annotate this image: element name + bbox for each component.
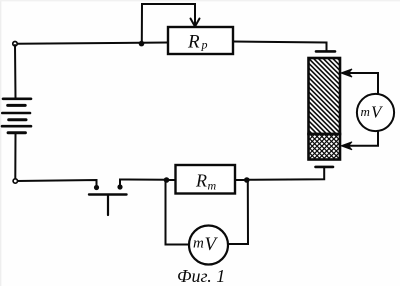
wire: Rm left to switch xyxy=(167,179,176,181)
wire: top horizontal from battery node to Rp xyxy=(17,43,169,44)
battery plate short 2 xyxy=(9,118,26,121)
top electrode bar of sample xyxy=(316,50,335,53)
svg-text:m: m xyxy=(208,179,217,193)
node: switch contact left xyxy=(94,185,99,190)
meter PV1 circle xyxy=(357,94,394,131)
node: junction dot at wiper tap xyxy=(139,41,145,47)
pushbutton bar xyxy=(89,193,127,195)
wire: switch right lead xyxy=(120,180,167,188)
pushbutton stem xyxy=(107,195,109,215)
wire: Rp to sample top xyxy=(233,42,327,51)
wire: battery bottom lead xyxy=(14,133,16,179)
wire: right drop from Rm xyxy=(228,182,248,244)
battery plate short 1 xyxy=(8,104,26,107)
svg-text:m: m xyxy=(193,236,204,252)
resistor Rp box xyxy=(168,27,233,54)
sample lower section (cross hatch) xyxy=(307,102,343,190)
wire: lower lead xyxy=(344,131,378,146)
faint scan edge left xyxy=(0,0,2,286)
wire: switch left lead to battery bottom xyxy=(17,180,97,187)
bottom electrode bar of sample xyxy=(316,166,334,169)
battery plate short 3 xyxy=(8,131,25,134)
wire: battery top lead xyxy=(14,45,17,99)
battery plate long 2 xyxy=(2,112,30,115)
svg-text:R: R xyxy=(195,171,207,191)
wire: into Rm right side xyxy=(235,179,247,181)
millivoltmeter PV1 at right xyxy=(341,69,394,150)
wire: left drop from Rm xyxy=(166,182,190,245)
label Rp xyxy=(187,32,208,53)
svg-text:m: m xyxy=(361,104,370,119)
node: junction left of Rm xyxy=(164,177,170,183)
svg-text:p: p xyxy=(201,38,208,52)
arrowhead upper (points at sample) xyxy=(341,69,352,77)
resistor Rm box xyxy=(176,165,236,194)
battery plate long 1 xyxy=(3,98,31,101)
arrowhead into Rp (wiper arrow) xyxy=(191,19,200,27)
faint scan edge top xyxy=(0,0,400,2)
svg-text:R: R xyxy=(187,32,200,53)
node: switch contact right xyxy=(117,184,122,189)
battery plate long 3 xyxy=(2,125,31,128)
arrowhead lower (points at sample) xyxy=(341,142,352,150)
wire: wiper loop of Rp xyxy=(142,4,195,43)
wire: upper lead xyxy=(344,73,378,94)
millivoltmeter PV2 loop under Rm xyxy=(166,182,249,265)
node: junction right of Rm xyxy=(244,177,250,183)
battery G1 xyxy=(2,45,31,179)
node: open terminal bottom-left xyxy=(13,179,17,183)
wire: sample bottom to bottom rail xyxy=(247,168,324,180)
svg-text:Фиг. 1: Фиг. 1 xyxy=(177,266,225,286)
meter PV2 circle xyxy=(189,226,228,265)
label Rm xyxy=(195,171,217,193)
node: open terminal top-left xyxy=(13,42,17,46)
sample upper section (diagonal hatch) xyxy=(307,27,343,163)
